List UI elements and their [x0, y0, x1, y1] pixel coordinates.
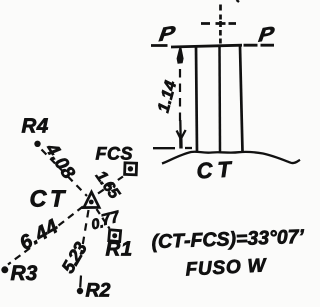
ground level dash right	[185, 147, 192, 149]
distance label 4.08	[45, 141, 77, 180]
stray mark top right	[237, 0, 240, 2]
P left dashed level line	[151, 44, 168, 47]
label P left	[159, 26, 176, 42]
line CT-R3 dashed lower part	[8, 248, 30, 265]
label R4	[22, 118, 48, 132]
label P right	[258, 26, 274, 41]
distance label 6.44	[18, 218, 59, 250]
label R2	[86, 283, 110, 297]
azimuth note (CT-FCS)=33 07	[152, 229, 305, 252]
line CT-FCS dashed	[98, 177, 123, 194]
label CT under pillar	[197, 161, 233, 178]
pillar top line	[171, 45, 242, 47]
dimension arrowhead down	[177, 120, 186, 144]
distance label 1.65	[95, 169, 121, 200]
station triangle center dot	[89, 200, 94, 205]
pillar axis vertical dashed line	[219, 5, 222, 44]
zone note FUSO W	[186, 258, 268, 276]
pillar left edge	[196, 46, 197, 153]
distance label 0.77	[91, 217, 103, 229]
point FCS square	[125, 163, 137, 175]
station triangle CT	[84, 192, 99, 208]
point R3 dot	[1, 266, 8, 273]
line CT-R2 last dash	[79, 276, 82, 288]
dimension line shaft	[179, 69, 181, 127]
ground wavy line	[162, 152, 300, 164]
label FCS	[96, 147, 133, 160]
P right dashed level line	[244, 44, 275, 47]
pillar right edge	[240, 46, 243, 152]
point R2 dot	[77, 288, 83, 294]
ground level dash left	[153, 147, 175, 149]
point R4 dot	[34, 141, 40, 147]
distance label 5.23	[61, 241, 88, 275]
dimension arrowhead up solid wedge	[177, 47, 184, 64]
point FCS dot	[128, 166, 133, 171]
line CT-R1 dashed	[97, 209, 110, 229]
pillar middle line	[218, 46, 221, 152]
label R3	[11, 265, 37, 280]
line CT-R4 dashed	[42, 150, 88, 197]
line CT-R3 dashed	[56, 207, 83, 228]
cross horizontal dashed line	[201, 22, 236, 25]
label R1	[106, 241, 131, 255]
dimension arrow foot	[179, 138, 183, 149]
point R1 square	[109, 230, 121, 242]
line CT-R2 dashed	[82, 210, 89, 252]
dimension label 1.14	[157, 80, 176, 113]
point R1 dot	[112, 233, 117, 238]
label CT station	[31, 190, 66, 207]
